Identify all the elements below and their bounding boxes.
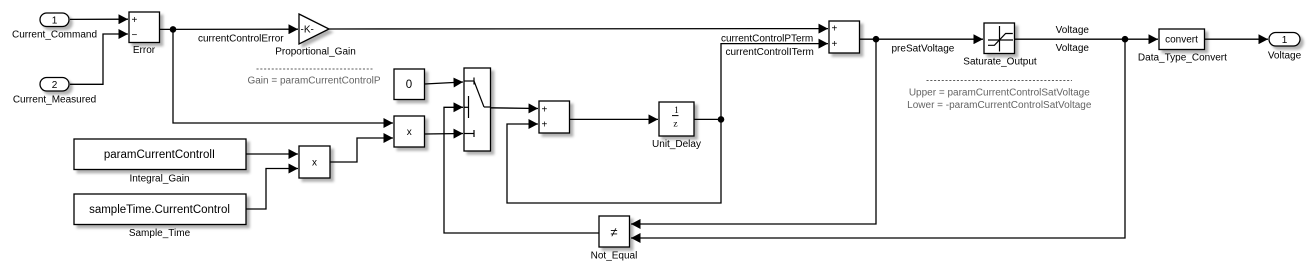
gain Proportional_Gain xyxy=(299,14,329,44)
svg-text:1: 1 xyxy=(52,15,58,26)
svg-text:+: + xyxy=(832,39,838,50)
svg-text:Voltage: Voltage xyxy=(1056,43,1090,54)
sum block Error xyxy=(129,12,160,43)
svg-text:currentControlITerm: currentControlITerm xyxy=(726,47,814,58)
saturation Saturate_Output xyxy=(984,23,1015,54)
svg-text:Voltage: Voltage xyxy=(1056,25,1090,36)
wire Switch to Sum3 xyxy=(490,107,538,110)
product Product1 xyxy=(299,146,330,178)
wire Unit_Delay feedback to Sum3 bottom input xyxy=(507,119,721,203)
svg-text:convert: convert xyxy=(1165,35,1198,46)
annotation separator gain xyxy=(257,68,373,70)
node junction currentControlError xyxy=(170,26,177,33)
svg-text:0: 0 xyxy=(406,79,412,91)
unit delay Unit_Delay xyxy=(659,102,694,136)
wire Product1 to Product2 xyxy=(330,138,393,162)
svg-text:Integral_Gain: Integral_Gain xyxy=(129,174,189,185)
constant Sample_Time sampleTime.CurrentControl xyxy=(74,194,246,225)
svg-text:1: 1 xyxy=(674,106,679,116)
wire Sample_Time constant to Product1 xyxy=(247,169,299,210)
wire port1 to Error xyxy=(70,18,128,20)
svg-text:+: + xyxy=(132,15,138,26)
svg-text:Proportional_Gain: Proportional_Gain xyxy=(275,47,356,58)
product Product2 xyxy=(394,116,425,147)
wire Not_Equal output to Switch control input xyxy=(444,107,599,233)
svg-text:currentControlError: currentControlError xyxy=(198,33,284,44)
constant Constant0 xyxy=(394,69,425,100)
svg-text:Error: Error xyxy=(133,45,156,56)
svg-text:Not_Equal: Not_Equal xyxy=(591,251,638,262)
svg-text:currentControlPTerm: currentControlPTerm xyxy=(721,33,813,44)
relational operator Not_Equal xyxy=(599,216,630,247)
inport 1 Current_Command xyxy=(40,13,69,27)
svg-text:Data_Type_Convert: Data_Type_Convert xyxy=(1138,53,1227,64)
svg-text:preSatVoltage: preSatVoltage xyxy=(892,44,955,55)
wire junction down to Product2 top input xyxy=(173,29,393,123)
svg-text:Current_Measured: Current_Measured xyxy=(13,95,96,106)
wire Data_Type_Convert to outport Voltage xyxy=(1205,38,1269,40)
wire Sum3 to Unit_Delay xyxy=(570,118,659,120)
svg-text:Lower = -paramCurrentControlSa: Lower = -paramCurrentControlSatVoltage xyxy=(907,100,1092,111)
svg-text:sampleTime.CurrentControl: sampleTime.CurrentControl xyxy=(89,204,230,216)
wire Error to Proportional_Gain xyxy=(160,28,299,30)
svg-text:Saturate_Output: Saturate_Output xyxy=(963,56,1037,67)
wire Voltage down to Not_Equal bottom input xyxy=(631,39,1125,238)
svg-text:Voltage: Voltage xyxy=(1268,51,1302,62)
outport 1 Voltage xyxy=(1269,33,1300,47)
svg-text:Current_Command: Current_Command xyxy=(12,30,97,41)
node junction Voltage xyxy=(1122,36,1129,43)
annotation separator saturation xyxy=(927,80,1073,82)
svg-text:z: z xyxy=(673,119,677,129)
wire Sum2 to Saturate_Output xyxy=(860,38,984,40)
svg-text:Sample_Time: Sample_Time xyxy=(129,228,191,239)
svg-text:Unit_Delay: Unit_Delay xyxy=(652,139,701,150)
svg-text:Gain = paramCurrentControlP: Gain = paramCurrentControlP xyxy=(247,76,380,87)
svg-text:paramCurrentControlI: paramCurrentControlI xyxy=(104,149,215,161)
node junction preSatVoltage xyxy=(873,36,880,43)
svg-text:-K-: -K- xyxy=(301,25,314,36)
switch Switch xyxy=(464,68,491,151)
data type convert Data_Type_Convert xyxy=(1159,29,1205,50)
svg-text:+: + xyxy=(832,23,838,34)
sum block Sum3 integrator xyxy=(539,101,570,133)
svg-text:+: + xyxy=(542,104,548,115)
wire Integral_Gain constant to Product1 xyxy=(247,153,299,155)
wire preSatVoltage down to Not_Equal top input xyxy=(631,39,876,224)
wire Constant0 to Switch top input xyxy=(425,82,464,84)
svg-text:x: x xyxy=(407,127,412,138)
svg-text:2: 2 xyxy=(52,80,58,91)
svg-text:Upper = paramCurrentControlSat: Upper = paramCurrentControlSatVoltage xyxy=(909,87,1090,98)
wire Proportional_Gain to Sum2 top input xyxy=(329,28,828,30)
wire Saturate_Output to Data_Type_Convert xyxy=(1015,38,1159,40)
wire port2 to Error minus xyxy=(70,34,128,84)
wire Unit_Delay output up to Sum2 bottom input xyxy=(695,44,829,120)
inport 2 Current_Measured xyxy=(40,78,69,92)
svg-text:+: + xyxy=(542,119,548,130)
svg-text:1: 1 xyxy=(1282,35,1288,46)
wire Product2 to Switch bottom input xyxy=(425,133,464,136)
svg-text:≠: ≠ xyxy=(610,225,617,240)
sum block Sum2 output xyxy=(829,21,860,53)
constant Integral_Gain paramCurrentControlI xyxy=(74,139,246,170)
svg-text:x: x xyxy=(312,158,317,169)
node junction Unit_Delay output xyxy=(718,116,725,123)
svg-text:−: − xyxy=(132,30,138,41)
